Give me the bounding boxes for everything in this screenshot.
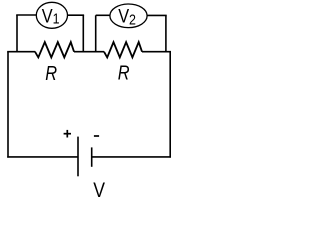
resistor R2: [104, 42, 142, 57]
svg-text:2: 2: [129, 12, 136, 28]
wire: bottom left segment: [7, 156, 78, 158]
label V2: [118, 5, 136, 27]
svg-text:R: R: [45, 61, 57, 84]
wire: V2 right horizontal: [147, 14, 167, 16]
wire: V1 left horizontal: [16, 14, 36, 16]
wire: outer loop left vertical: [7, 52, 9, 158]
wire: V1 right horizontal: [67, 14, 84, 16]
svg-text:V: V: [118, 5, 129, 26]
svg-text:1: 1: [53, 11, 60, 27]
svg-text:V: V: [93, 178, 106, 198]
battery V: positive long plate: [77, 137, 79, 177]
label V1: [42, 6, 60, 27]
wire: top right segment: [142, 51, 171, 53]
wire: outer loop right vertical: [169, 52, 171, 158]
voltmeter V2: [110, 4, 147, 28]
svg-text:R: R: [118, 61, 130, 84]
wire: V2 left stub vertical: [95, 15, 97, 52]
resistor R1: [35, 42, 74, 57]
label + (battery positive): [64, 130, 71, 138]
wire: top left segment: [7, 51, 35, 53]
label - (battery negative): [94, 135, 99, 137]
battery V: negative short plate: [91, 147, 93, 166]
wire: bottom right segment: [92, 156, 171, 158]
svg-text:V: V: [42, 6, 53, 27]
wire: top middle segment: [74, 51, 104, 53]
voltmeter V1: [36, 2, 67, 28]
wire: V1 left stub vertical: [16, 15, 18, 52]
wire: V2 left horizontal: [96, 14, 110, 16]
wire: V2 right stub vertical: [165, 15, 167, 52]
wire: V1 right stub vertical: [82, 15, 84, 52]
